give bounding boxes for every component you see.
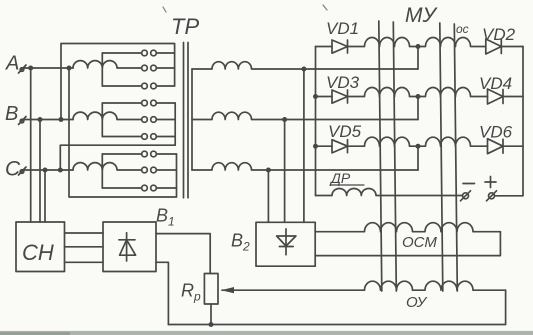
MU oc winding 2 — [418, 88, 488, 97]
wire dropper C to SN — [44, 170, 46, 222]
magnetic amplifier MU label — [405, 4, 438, 27]
wire V1 out2 to bottom rail — [156, 262, 168, 324]
MU core line 4 — [454, 24, 457, 291]
svg-text:R: R — [181, 281, 194, 301]
wire SN-V1 link2 — [65, 246, 104, 248]
choke DR — [316, 188, 463, 195]
scan edge band bottom — [0, 331, 533, 335]
MU working winding 3 — [348, 137, 419, 146]
svg-text:VD6: VD6 — [479, 123, 513, 142]
wire VD3 row left — [316, 96, 333, 98]
wire tap vertical A — [101, 53, 103, 86]
node junction midpoint 3 — [416, 144, 421, 149]
block SN label — [22, 240, 54, 265]
MU core line 3 — [440, 23, 443, 291]
node A label — [5, 53, 19, 75]
transformer TR label — [171, 14, 199, 39]
transformer TR secondary winding 2 — [192, 112, 418, 119]
svg-text:VD1: VD1 — [326, 19, 359, 38]
terminal minus — [461, 191, 471, 201]
svg-text:VD3: VD3 — [326, 73, 360, 92]
MU working winding 1 — [348, 38, 419, 47]
node junction C-frameB — [58, 168, 63, 173]
wire tap top C — [102, 153, 141, 155]
wire VD5 row left — [316, 145, 333, 147]
svg-text:ТР: ТР — [171, 14, 199, 39]
wire OU return rail — [168, 290, 505, 324]
terminal B — [19, 117, 27, 125]
tap contacts B mid — [142, 117, 176, 123]
block V2 label — [231, 231, 250, 254]
diode VD6 — [488, 139, 504, 154]
wire Rp bottom — [210, 304, 212, 325]
scan smudge top2 — [323, 5, 327, 10]
MU core line 2 — [393, 22, 396, 291]
wire dropper row2 to V2 — [284, 120, 286, 223]
minus sign — [463, 183, 475, 185]
wiper arrow — [221, 287, 234, 293]
transformer TR primary winding C — [73, 163, 142, 170]
winding oc label — [456, 22, 469, 36]
node junction midpoint 1 — [416, 44, 421, 49]
wire anode bus — [315, 47, 317, 196]
block V1 label — [156, 206, 175, 229]
diode VD3 label — [326, 73, 360, 92]
terminal C — [19, 167, 27, 175]
node C label — [5, 158, 21, 181]
block V2 rectifier symbol — [277, 229, 296, 255]
node junction A-dropper — [28, 66, 33, 71]
node B label — [5, 103, 18, 125]
tap contacts A top — [142, 50, 175, 56]
svg-text:В: В — [231, 231, 243, 251]
tap contacts B bottom — [142, 134, 176, 140]
node junction VD5 — [313, 144, 318, 149]
wire secondary star — [191, 69, 193, 170]
terminal plus — [487, 191, 497, 201]
diode VD1 label — [326, 19, 359, 38]
node junction B-frameA — [59, 117, 64, 122]
tap contacts C top — [142, 151, 177, 157]
wire bus C to A — [69, 68, 177, 197]
scan smudge top — [163, 7, 166, 12]
diode VD3 — [332, 90, 348, 103]
svg-text:VD5: VD5 — [328, 122, 362, 141]
diode VD1 — [332, 40, 348, 53]
node junction row2 dropper — [282, 117, 287, 122]
diode VD6 label — [479, 123, 513, 142]
wire tap top A — [102, 52, 141, 54]
svg-text:2: 2 — [242, 240, 250, 254]
svg-text:ОУ: ОУ — [406, 294, 428, 311]
wire phase A — [24, 67, 73, 69]
wire OSM return — [315, 232, 500, 256]
svg-text:МУ: МУ — [405, 4, 438, 27]
block V1 rectifier symbol — [119, 233, 136, 261]
wire phase C — [24, 169, 73, 171]
block V2 box — [256, 222, 315, 266]
wire SN-V1 link3 — [65, 261, 104, 263]
transformer TR secondary winding 1 — [192, 62, 418, 69]
wire midpoint branch row2 — [417, 97, 419, 120]
wire tap bottom A — [102, 85, 141, 87]
tap contacts A mid — [142, 65, 175, 71]
transformer TR primary winding B — [73, 112, 142, 119]
winding OSM upper — [315, 223, 500, 232]
MU working winding 2 — [348, 88, 419, 97]
wire tap bottom C — [102, 187, 141, 189]
node junction VD3 — [313, 94, 318, 99]
tap contacts B top — [142, 100, 176, 106]
svg-text:ОСМ: ОСМ — [402, 234, 437, 251]
plus sign — [485, 177, 496, 188]
block SN box — [16, 222, 65, 272]
wire tap vertical B — [101, 103, 103, 137]
wire phase B — [24, 119, 73, 121]
node junction C-dropper — [43, 168, 48, 173]
diode VD4 label — [479, 74, 512, 93]
winding OU label — [406, 294, 428, 311]
diode VD5 — [332, 140, 348, 153]
svg-text:В: В — [5, 103, 18, 125]
node junction B-dropper — [38, 117, 43, 122]
node junction row1 dropper — [301, 67, 306, 72]
wire cathode bus — [495, 47, 524, 196]
resistor Rp label — [181, 281, 201, 304]
diode VD4 — [488, 89, 504, 104]
transformer TR primary winding A — [73, 61, 142, 68]
svg-text:ос: ос — [456, 22, 469, 36]
wire bus B to C — [60, 103, 175, 170]
choke DR label — [329, 170, 364, 186]
wire dropper row1 to V2 — [303, 69, 305, 222]
wire midpoint branch row1 — [417, 47, 419, 70]
transformer TR core — [184, 43, 189, 198]
wire VD4 to plus bus — [503, 96, 523, 98]
wire tap bottom B — [102, 136, 141, 138]
transformer TR secondary winding 3 — [192, 163, 418, 170]
svg-text:VD4: VD4 — [479, 74, 512, 93]
svg-text:1: 1 — [168, 215, 175, 229]
wire SN-V1 link1 — [65, 232, 104, 234]
wire bus A and frame to B — [61, 44, 175, 120]
svg-text:ДР: ДР — [329, 170, 351, 186]
wire VD1 row left — [316, 46, 333, 48]
node junction Rp rail — [209, 322, 214, 327]
tap contacts C bottom — [142, 185, 177, 191]
winding OSM label — [402, 234, 437, 251]
terminal A — [19, 65, 27, 73]
wire V1 out1 to Rp — [156, 234, 210, 274]
svg-text:р: р — [193, 290, 201, 304]
wire dropper B to SN — [39, 120, 41, 223]
wire dropper A to SN — [30, 68, 32, 222]
node junction A-delta — [67, 66, 72, 71]
tap contacts A bottom — [142, 83, 175, 89]
MU core line 1 — [379, 21, 382, 291]
MU oc winding 3 — [418, 137, 488, 146]
diode VD2 label — [482, 25, 516, 44]
svg-text:А: А — [5, 53, 19, 75]
wire midpoint branch row3 — [417, 146, 419, 170]
wire dropper row3 to V2 — [267, 170, 269, 222]
wire tap top B — [102, 102, 141, 104]
block V1 box — [103, 222, 156, 272]
tap contacts C mid — [142, 167, 177, 173]
resistor Rp — [204, 274, 218, 305]
wire tap vertical C — [101, 154, 103, 188]
wire VD2 to plus bus — [501, 46, 523, 48]
svg-text:VD2: VD2 — [482, 25, 516, 44]
svg-text:СН: СН — [22, 240, 54, 265]
svg-text:В: В — [156, 206, 168, 226]
svg-text:С: С — [5, 158, 21, 181]
wire VD6 to plus bus — [503, 145, 523, 147]
diode VD2 — [486, 39, 502, 54]
MU oc winding 1 — [418, 38, 486, 47]
winding OU upper — [233, 281, 506, 290]
diode VD5 label — [328, 122, 362, 141]
node junction row3 dropper — [266, 168, 271, 173]
node junction midpoint 2 — [416, 94, 421, 99]
